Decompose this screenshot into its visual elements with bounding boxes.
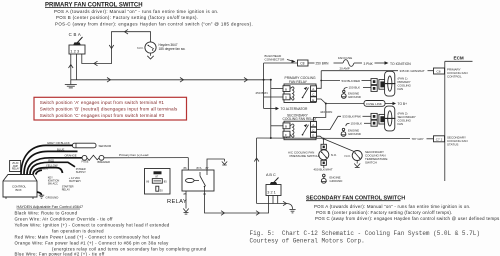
svg-text:CONTROL: CONTROL	[447, 74, 462, 78]
svg-text:TO IGNITION: TO IGNITION	[390, 62, 411, 66]
svg-text:HAYDEN Adjustable Fan Control: HAYDEN Adjustable Fan Control #3647	[17, 205, 84, 209]
wire relay 85 to ground	[183, 191, 189, 214]
svg-text:87A: 87A	[197, 166, 202, 170]
wire 150 BLK fan 1 to engine ground	[344, 86, 371, 91]
svg-text:TO B+: TO B+	[398, 102, 408, 106]
connector C8 ECM	[434, 68, 445, 74]
svg-text:Switch position 'B' (neutral): Switch position 'B' (neutral) disengages…	[40, 106, 178, 111]
fuse link	[364, 101, 407, 107]
svg-text:COOLING FAN RELAY: COOLING FAN RELAY	[283, 117, 318, 121]
wire SW1 terminal2 long feed to bulkhead bus	[71, 54, 264, 82]
wire 787 GRY to ECM	[412, 137, 434, 141]
svg-text:FUSE LINK: FUSE LINK	[366, 102, 382, 106]
svg-text:C7 2: C7 2	[436, 138, 443, 142]
svg-text:RELAY: RELAY	[167, 199, 187, 205]
wire primary fan (+) lead to relay pin 86	[104, 153, 188, 170]
svg-text:GREEN: GREEN	[39, 166, 48, 170]
wire SW1 terminal1 to ground	[69, 54, 74, 85]
svg-text:85: 85	[184, 192, 188, 196]
secondary cooling fan relay K2	[283, 113, 318, 139]
svg-text:Green Wire: Air Conditioner Ov: Green Wire: Air Conditioner Override - t…	[15, 216, 114, 221]
title SECONDARY FAN CONTROL SWITCH	[306, 196, 405, 202]
wire coil ground net (secondary)	[257, 137, 410, 139]
wire bus to primary relay coil pins	[264, 79, 283, 138]
svg-text:20 AMP: 20 AMP	[340, 67, 350, 71]
inline fuse on orange wire	[82, 155, 89, 163]
wire yellow ignition	[33, 164, 63, 186]
fuse FAN FUSE 20 AMP	[338, 56, 354, 71]
svg-text:A: A	[312, 123, 314, 127]
svg-text:FUSE: FUSE	[82, 160, 89, 164]
sensor probe	[73, 143, 113, 148]
svg-text:RED: RED	[48, 158, 54, 162]
svg-text:533 BLK/RED: 533 BLK/RED	[342, 79, 362, 83]
wire primary relay pin E to fuse link junction	[317, 99, 365, 105]
wire 150 BLK fan 2 to engine ground	[346, 121, 371, 126]
svg-text:BREAKER: BREAKER	[98, 160, 111, 164]
wire relay 30 to secondary switch terminal 3	[205, 191, 269, 215]
svg-text:ORANGE: ORANGE	[65, 153, 77, 157]
title PRIMARY FAN CONTROL SWITCH	[45, 2, 143, 8]
connector C8 bulkhead	[264, 60, 308, 66]
wire 250 BRN to fan fuse	[308, 62, 343, 66]
svg-text:Blue Wire: Fan power lead #2 (: Blue Wire: Fan power lead #2 (+) - tie o…	[15, 252, 106, 256]
svg-text:GROUND: GROUND	[330, 179, 343, 183]
legend title HAYDEN Adjustable Fan Control	[17, 205, 84, 209]
relay K3 30a schematic	[182, 166, 214, 196]
svg-text:C8: C8	[300, 62, 304, 66]
svg-text:446 DRN: 446 DRN	[320, 110, 332, 114]
wire 335 DK GRN/WHT to ECM	[321, 69, 433, 73]
wire orange fan power lead 1	[27, 153, 82, 174]
junction bus and switch feed	[263, 79, 265, 81]
svg-text:STATUS: STATUS	[447, 143, 458, 147]
svg-text:Fig. 5: Chart C-12 Schematic: Fig. 5: Chart C-12 Schematic - Cooling F…	[250, 230, 480, 237]
svg-text:POS B (center position): Facto: POS B (center position): Factory setting…	[316, 210, 453, 215]
svg-text:Black Wire: Route to Ground: Black Wire: Route to Ground	[15, 210, 78, 215]
svg-text:450 BLK/WHT: 450 BLK/WHT	[314, 167, 333, 171]
svg-text:B: B	[285, 87, 287, 91]
wire coil ground to manual switch	[254, 138, 286, 206]
fan 1 motor	[379, 71, 396, 96]
svg-text:B: B	[285, 125, 287, 129]
primary cooling fan relay K1	[283, 76, 317, 102]
svg-text:fan operation is desired: fan operation is desired	[52, 228, 104, 233]
wire relay 87 to ground	[207, 159, 227, 172]
svg-text:C8: C8	[437, 70, 441, 74]
svg-text:E: E	[312, 134, 314, 138]
label fan 2	[398, 112, 416, 126]
relay module box (25/30 amp) above control box	[10, 161, 21, 172]
thermal switch S2 Hayden 185 degree	[137, 42, 185, 53]
svg-text:Red Wire: Main Power Lead (+): Red Wire: Main Power Lead (+) - Connect …	[15, 234, 161, 239]
ECM box	[445, 56, 473, 181]
svg-text:SENSOR: SENSOR	[99, 144, 113, 148]
svg-text:185 degree fan sw.: 185 degree fan sw.	[159, 47, 186, 51]
svg-text:Yellow Wire: Ignition (+) - Co: Yellow Wire: Ignition (+) - Connect to c…	[15, 222, 170, 227]
svg-text:RELAY: RELAY	[12, 168, 20, 171]
wire to alternator	[264, 107, 308, 111]
svg-text:150 BLK: 150 BLK	[349, 86, 361, 90]
svg-text:A B C: A B C	[266, 173, 276, 177]
Hayden control box U1	[3, 175, 37, 200]
svg-text:A: A	[312, 87, 314, 91]
relay socket pinout diagram	[145, 169, 171, 195]
junction secondary fan switches	[323, 138, 325, 140]
svg-text:Primary Fan (+) Lead: Primary Fan (+) Lead	[119, 153, 149, 157]
svg-text:Courtesy of General Motors Cor: Courtesy of General Motors Corp.	[250, 238, 365, 245]
a/c pressure switch S3	[288, 139, 337, 166]
wire SW2 terminal 1	[277, 196, 279, 204]
switch SW2 secondary 3-position toggle	[266, 173, 281, 196]
svg-text:GROUND: GROUND	[46, 195, 59, 199]
wire primary relay pin A junction	[317, 71, 323, 89]
engine ground below pressure switch	[321, 174, 342, 183]
svg-text:3 2 1: 3 2 1	[267, 190, 275, 194]
svg-text:533 BLK/PNK: 533 BLK/PNK	[343, 115, 362, 119]
svg-text:TO ALTERNATOR: TO ALTERNATOR	[281, 107, 308, 111]
wire 3 PNK to ignition	[354, 61, 411, 66]
svg-text:CONNECTOR: CONNECTOR	[265, 58, 286, 62]
svg-text:POS-C (away from driver): enga: POS-C (away from driver): engages Hayden…	[55, 21, 253, 26]
svg-text:SW ACC: SW ACC	[48, 182, 58, 186]
svg-text:FAN: FAN	[398, 122, 404, 126]
svg-text:SWITCH: SWITCH	[365, 161, 377, 165]
svg-text:RELAY: RELAY	[62, 188, 71, 192]
label primary cooling fan control	[447, 67, 468, 78]
wire black to ground	[37, 192, 58, 199]
ground G2 below thermal switch	[147, 53, 153, 59]
svg-text:150 BLK: 150 BLK	[351, 121, 363, 125]
svg-text:3 PNK: 3 PNK	[364, 62, 374, 66]
svg-text:F: F	[285, 133, 287, 137]
svg-text:86: 86	[184, 166, 188, 170]
svg-text:PRESSURE SWITCH: PRESSURE SWITCH	[290, 154, 319, 158]
svg-text:ECM: ECM	[454, 56, 464, 61]
fan 2 connector	[371, 113, 377, 126]
svg-text:SUPPLY: SUPPLY	[76, 170, 86, 174]
wire grey/black to sensor	[21, 141, 73, 175]
fan 2 motor	[379, 106, 396, 131]
bulkhead connector label	[265, 54, 296, 63]
caption figure text	[250, 230, 480, 245]
label fan 1	[398, 77, 412, 91]
wire SW2 terminal 2	[272, 196, 274, 204]
wire SW1 terminal3 to thermal switch	[82, 29, 151, 65]
svg-text:Switch position 'A' engages in: Switch position 'A' engages input from s…	[40, 100, 165, 105]
wire blue (tie off)	[24, 147, 78, 174]
svg-text:POS C (away from driver): enga: POS C (away from driver): engages Hayden…	[315, 216, 500, 221]
secondary cooling fan temperature switch S4	[324, 139, 388, 165]
ground G1	[65, 85, 77, 88]
svg-text:C B A: C B A	[69, 32, 82, 37]
svg-text:FAN RELAY: FAN RELAY	[289, 80, 308, 84]
engine ground fan 2	[341, 128, 361, 136]
svg-text:N.O.: N.O.	[137, 46, 144, 50]
wire green a/c override	[36, 166, 74, 191]
svg-text:787 GRY: 787 GRY	[412, 137, 424, 141]
svg-text:250 BRN: 250 BRN	[316, 62, 330, 66]
svg-text:FAN FUSE: FAN FUSE	[338, 56, 352, 60]
ground hook secondary switch	[287, 204, 296, 213]
callout box (red) switch position notes	[34, 97, 187, 120]
svg-text:335 DK GRN/WHT: 335 DK GRN/WHT	[400, 69, 425, 73]
wire 450 BLK/WHT to engine ground	[314, 165, 333, 171]
svg-text:BOX: BOX	[16, 188, 22, 192]
svg-text:GROUND: GROUND	[348, 132, 361, 136]
svg-text:N.O.: N.O.	[331, 153, 337, 157]
svg-text:BLUE: BLUE	[57, 147, 64, 151]
wire secondary relay pin E to junction	[317, 136, 324, 139]
inline breaker on orange wire	[87, 155, 110, 164]
engine ground fan 1	[341, 90, 361, 99]
svg-text:GREY OR BLACK: GREY OR BLACK	[47, 141, 70, 145]
svg-text:Orange Wire: Fan power lead #1: Orange Wire: Fan power lead #1 (+) - Con…	[15, 240, 170, 245]
svg-text:N.O.: N.O.	[345, 154, 351, 158]
svg-text:POS A (towards driver): Manual: POS A (towards driver): Manual “on” - ru…	[54, 9, 219, 14]
svg-text:1 2 3: 1 2 3	[70, 49, 80, 54]
label secondary cooling fan status	[447, 136, 468, 147]
switch SW1 primary 3-position toggle	[69, 32, 85, 54]
svg-text:GROUND: GROUND	[348, 95, 361, 99]
wire 533 BLK/PNK to fan 2	[317, 115, 372, 130]
svg-text:250 BRN: 250 BRN	[256, 91, 268, 95]
svg-text:Switch position 'C' engages in: Switch position 'C' engages input from s…	[40, 113, 165, 118]
fan 1 connector	[371, 79, 377, 92]
ground below temperature switch	[354, 161, 360, 168]
bus 250 BRN vertical	[256, 63, 268, 109]
svg-text:POS A (towards driver): Manual: POS A (towards driver): Manual “on” - ru…	[314, 204, 471, 209]
svg-text:POS B (center position): Facto: POS B (center position): Factory setting…	[56, 15, 198, 20]
connector C7 ECM status	[434, 136, 445, 142]
svg-text:BATTERY: BATTERY	[69, 179, 81, 183]
wire red main power lead	[30, 158, 86, 183]
svg-text:FAN: FAN	[398, 87, 404, 91]
wire 446 DRN to secondary relay	[314, 104, 333, 122]
svg-text:E: E	[312, 98, 314, 102]
wire 533 BLK/RED to fan 1	[321, 79, 371, 83]
